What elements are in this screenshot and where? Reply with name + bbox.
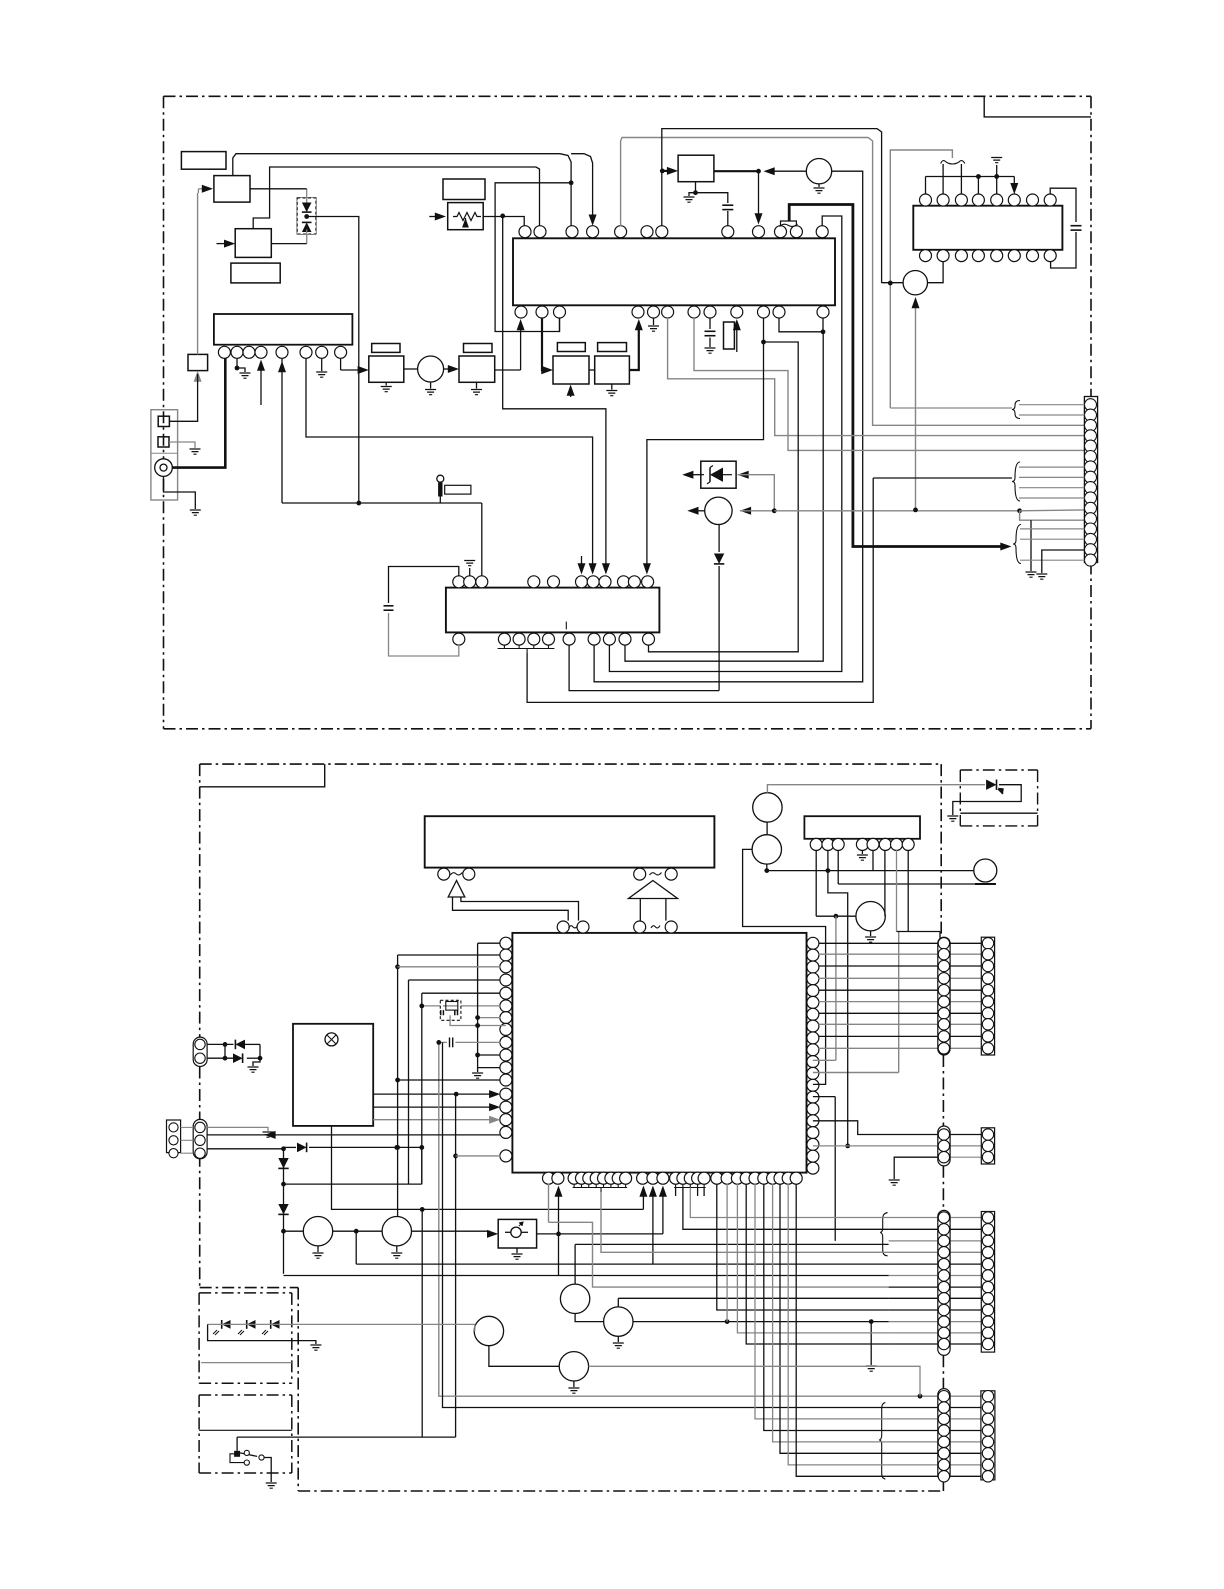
wire A3 out to D2 xyxy=(271,243,306,245)
wire netA to pin xyxy=(570,183,572,226)
wire Q14 to Q15 xyxy=(575,1314,604,1322)
block C3 label xyxy=(598,343,627,352)
wire bpin7 to CN2 p5 xyxy=(694,318,1084,451)
wire 10grp 780 to CN14 p6 xyxy=(780,1184,886,1454)
wire to Q14 top xyxy=(574,1244,576,1284)
wire jack shield ground xyxy=(164,476,196,509)
wire sensor lower xyxy=(201,1362,292,1364)
wire Q16 to Q17 xyxy=(489,1346,559,1367)
block A5 (preamp) xyxy=(214,314,353,345)
wire IC11 row2 xyxy=(398,954,501,956)
connector CN12 rows xyxy=(813,1121,989,1135)
brace p13-p16 xyxy=(1013,525,1021,564)
wire IC11 bpin arrow 662 xyxy=(662,1190,664,1234)
wire IC11 rpin 1072 gray xyxy=(813,1072,899,1074)
wire gnd stub xyxy=(870,1322,872,1365)
wire Q13 out to M1 xyxy=(412,1230,491,1232)
connector CN13 (board side) xyxy=(938,1210,950,1355)
title block bottom-left xyxy=(200,764,325,787)
wire jack signal (thick) xyxy=(172,358,225,468)
wire 10grp 763 to CN14 p4 xyxy=(764,1184,887,1431)
wire v558 net xyxy=(558,1190,560,1276)
wire lamp to IC11 bpin arrow 642 xyxy=(642,1190,644,1209)
wire CN16 p1 gnd xyxy=(207,1127,268,1131)
wire 10grp 772 to CN14 p5 xyxy=(773,1184,887,1442)
IC12 (reg) xyxy=(804,816,920,839)
wire 10grp 788 to CN14 p7 xyxy=(788,1184,886,1465)
wire arrow stub xyxy=(581,556,583,567)
dash-dot box D11 (AC adaptor) xyxy=(960,769,1037,771)
label F1 xyxy=(445,485,471,494)
wire IC11 row7 xyxy=(478,1017,501,1019)
wire IC11 row11 xyxy=(478,1067,501,1069)
wire resonator tap xyxy=(450,1015,506,1025)
wire B2 gnd node xyxy=(689,182,696,196)
block A2 xyxy=(214,176,250,203)
wire pin6 to Q11 right xyxy=(884,850,886,916)
wire B1 to D11 xyxy=(767,785,960,793)
regulator circle Q11 xyxy=(856,902,885,931)
wire 5grp p697 stub xyxy=(697,1188,699,1197)
wire row 1244 net xyxy=(575,1243,889,1245)
wire pin6 route to IC3 xyxy=(306,358,593,560)
wire pin2 branch down xyxy=(828,871,848,1146)
connector CN15 (2p) xyxy=(193,1037,207,1066)
wire block C1 out xyxy=(495,369,521,371)
lamp block LP1 xyxy=(293,1024,373,1126)
diode D12 xyxy=(207,1043,233,1045)
IC11 8-group bracket xyxy=(573,1184,575,1188)
diode chain D14 D15 xyxy=(283,1149,285,1274)
wire jack sq2 ground xyxy=(169,442,195,448)
trimmer R1 xyxy=(448,203,484,230)
photo diode PD1 xyxy=(222,1320,231,1329)
connector CN11 (cable side) xyxy=(981,937,994,1055)
wire to IC3 bpin 625 xyxy=(625,332,823,661)
transistor Q16 xyxy=(474,1316,503,1345)
wire branch to IC3 bpin xyxy=(649,342,799,652)
wire IC1 pin5 gray net to CN2 xyxy=(621,138,1085,426)
wire jack sq1 to A6 xyxy=(169,374,197,421)
wire node to pin9 xyxy=(758,171,760,216)
wire CN16 p3 xyxy=(207,1148,283,1150)
wire Q17 out to CN14 p1 xyxy=(589,1366,920,1396)
diode D16 row xyxy=(394,1145,399,1150)
wire M1 out to IC11 xyxy=(537,1233,663,1235)
wire node line y870 xyxy=(767,870,974,872)
wire junction to power switch xyxy=(421,1209,423,1437)
label R1 xyxy=(443,179,485,200)
wire R1 out to pin xyxy=(483,216,524,218)
IC11 5-group bracket xyxy=(675,1184,677,1188)
wire pin4 input xyxy=(260,363,262,405)
wire 8-group to CN13 p4 xyxy=(601,1192,889,1252)
wire A2 top to bus xyxy=(233,154,571,183)
feed p6-p9 from IC3 group xyxy=(873,477,1012,479)
servo driver Q2 xyxy=(705,497,732,524)
photo diode PD3 xyxy=(271,1320,280,1329)
wire v438 to CN14 p1 xyxy=(439,1042,920,1396)
diode D4 xyxy=(718,525,720,553)
oscillator X1 xyxy=(806,159,831,184)
wire bpin4 thick from C3 xyxy=(629,327,638,370)
wire LP1 to IC11 rows xyxy=(373,1093,497,1095)
block A1 xyxy=(181,152,226,170)
IC3 4-pin group bracket xyxy=(503,645,505,649)
wire xnet down to CN2 p1p2 xyxy=(889,154,891,408)
resistor R2 (vertical) xyxy=(724,322,735,349)
dual diode D1 D2 xyxy=(297,198,316,234)
wire bus y503 xyxy=(282,502,482,504)
small box A6 xyxy=(188,354,208,370)
transistor Q13 xyxy=(382,1217,411,1246)
wire v421 lower xyxy=(421,1147,423,1184)
connector CN11 rows xyxy=(819,942,989,944)
connector CN14 (cable side) xyxy=(981,1391,995,1480)
wire group to CN2 p6-9 xyxy=(527,478,873,702)
wire sensor out xyxy=(208,1323,475,1325)
wire 10grp 796 to CN14 p8 xyxy=(796,1184,886,1477)
wire 5grp p682 to CN13 p2 xyxy=(683,1188,889,1230)
wire 10grp 716 to CN13 p9 xyxy=(717,1184,889,1310)
wire bpin6 to CN2 p4 xyxy=(668,318,1085,436)
wire netA arm 2 xyxy=(571,154,593,216)
wire 5grp p675 stub xyxy=(675,1188,677,1197)
wire p15 ground xyxy=(1042,550,1085,573)
wire bpin1 arrow xyxy=(520,327,522,370)
resonator X11 xyxy=(440,1000,461,1020)
wire 5grp p690 to CN13 p1 xyxy=(690,1188,888,1218)
wire 10grp 755 to CN14 p3 xyxy=(755,1184,886,1419)
motor M2 xyxy=(974,859,997,882)
wire Q2 left out xyxy=(695,510,705,512)
wire bpin2 to C2 (thick) xyxy=(542,318,545,370)
block C1b label xyxy=(464,344,493,353)
wire R1 input xyxy=(429,216,438,218)
wire row 1184 xyxy=(284,1183,422,1185)
block C3 xyxy=(595,356,630,384)
wire D3 left out xyxy=(690,474,701,476)
photocoupler D3 box xyxy=(701,461,736,488)
wire D11 return xyxy=(953,785,1021,815)
transistor Q12 xyxy=(303,1217,332,1246)
wire gnd above IC3 xyxy=(469,568,471,576)
wire A2 input xyxy=(198,188,205,190)
capacitor C1 xyxy=(696,193,728,203)
wire into B2 xyxy=(662,170,670,172)
wire IC11 row12 xyxy=(398,1079,501,1081)
diode D13 xyxy=(207,1057,233,1059)
wire gnd stub CN2 xyxy=(1030,520,1032,571)
block C1b xyxy=(459,356,495,382)
transistor Q14 xyxy=(560,1284,589,1313)
power circles B1 B2 xyxy=(753,793,782,822)
wire row 1231 (mute line) xyxy=(284,1230,304,1232)
wire v442 to CN14 p2 xyxy=(443,1042,887,1407)
display block DS1 xyxy=(425,816,715,867)
wire pin7 ground xyxy=(321,358,323,371)
wire gnd net v477 xyxy=(477,943,479,1072)
connector CN14 (board side) xyxy=(938,1389,950,1481)
wire IC11 rpin 1096 to CN13 r3 xyxy=(813,1096,835,1098)
transistor Q17 xyxy=(559,1352,588,1381)
thick power bus to CN2 xyxy=(789,205,1003,547)
crystal feed brace xyxy=(941,161,965,164)
wire netA branch down-left xyxy=(495,183,571,332)
wire A2 out to D1 xyxy=(250,188,307,190)
label A4 xyxy=(231,263,280,283)
wire row 1287 net (from bpin1 gray) xyxy=(548,1184,550,1223)
wire Q2 net arrow to osc2 xyxy=(915,303,917,510)
wire IC12 pin4 gnd xyxy=(861,850,863,854)
block arrow 2 xyxy=(629,881,678,899)
power switch box xyxy=(199,1394,292,1396)
wire IC11 row5 xyxy=(422,992,501,994)
wire sensor gnd xyxy=(208,1324,316,1344)
wire clock bus xyxy=(662,129,882,283)
wire IC11 row1 xyxy=(478,942,501,944)
wire osc1 right to IC3 xyxy=(594,171,863,682)
diode D11 xyxy=(960,784,985,786)
wire switch net vertical xyxy=(455,1094,457,1437)
wire B2 left to IC11 area xyxy=(743,849,826,1084)
wire bpin11 bpin12 join xyxy=(779,318,823,332)
wire drop to IC3 top xyxy=(481,503,483,576)
block C2 xyxy=(553,356,589,384)
capacitor C3 loop IC2 xyxy=(1050,188,1076,222)
wire IC11 row4 xyxy=(409,979,501,981)
wire IC11 row10 xyxy=(478,1054,501,1056)
wire row 1264 net xyxy=(356,1263,888,1265)
wire 10grp 746 to CN13 p12 xyxy=(746,1184,888,1344)
node netA xyxy=(569,180,574,185)
wire v356 to row 1264 xyxy=(355,1231,357,1264)
motor driver M1 box xyxy=(498,1219,536,1248)
brace CN13 p1-p4 xyxy=(880,1213,887,1256)
capacitor C2 on bpin8 xyxy=(709,318,711,329)
connector CN16 (3p) xyxy=(167,1120,181,1153)
brace p1 p2 xyxy=(1012,401,1020,419)
wire Q15 out row 1321 xyxy=(633,1321,889,1323)
section border (main board, top) xyxy=(164,95,1092,97)
wire bpin5 ground xyxy=(653,318,655,325)
wire pin5 long drop xyxy=(281,405,283,503)
wire bpin3 netA xyxy=(559,318,561,332)
capacitor C11 row9 xyxy=(439,1041,447,1043)
switch S1 xyxy=(234,1451,240,1457)
wire IC11 row3 xyxy=(398,966,501,968)
remote sensor box xyxy=(199,1292,292,1294)
oscillator X2 xyxy=(903,271,927,295)
wire row 1275 net xyxy=(284,1275,889,1277)
wire pin2 ground xyxy=(237,358,245,372)
buffer Q1 xyxy=(404,368,418,370)
wire R1 long branch to IC3 xyxy=(503,216,606,560)
wire Q15 top from row 1298 xyxy=(617,1298,619,1307)
wire osc1 to node xyxy=(770,170,806,172)
wire D1D2 node to long drop xyxy=(307,217,359,504)
wire bpin10 net xyxy=(647,318,764,560)
wire 10grp 737 to CN13 p11 xyxy=(737,1184,888,1333)
block C1 xyxy=(369,356,404,382)
IC3 (DSP) xyxy=(446,588,660,633)
IC2 (tuner) xyxy=(913,206,1062,250)
wire B2 out node xyxy=(714,170,759,172)
wire osc2 right to IC2 xyxy=(928,261,944,283)
wire pin7 pin8 to CN11 xyxy=(896,850,898,932)
wire 10grp 727 to CN13 p10 xyxy=(726,1184,728,1322)
connector CN2 xyxy=(1084,397,1097,563)
photo diode PD2 xyxy=(247,1320,256,1329)
connector CN12 (cable side) xyxy=(981,1128,994,1164)
wire 5grp p704 stub xyxy=(703,1188,705,1197)
wire pin8 to B1 xyxy=(340,358,342,370)
wire IC11 row6 through resonator xyxy=(422,1005,501,1007)
crystal loop IC3 xyxy=(389,567,459,604)
wire A6 up (gray) xyxy=(197,193,199,354)
IC2 top bus xyxy=(926,176,1015,178)
thermal fuse F1 xyxy=(437,475,444,482)
wire IC11 row17 gray xyxy=(456,1155,501,1157)
wire A3 top to bus xyxy=(253,167,539,229)
title block top-right xyxy=(984,96,1091,117)
block B2 xyxy=(678,155,714,182)
wire IC11 bpin arrow 652 xyxy=(652,1190,654,1264)
wire v421 trunk xyxy=(421,993,423,1184)
wire A6 input from jack xyxy=(194,371,202,382)
wire D3 right in xyxy=(738,471,749,479)
block C2 label xyxy=(557,343,585,352)
wire 835 drop to IC11 right pin xyxy=(835,916,837,1060)
brace p6-p9 xyxy=(1012,462,1020,501)
wire CN16 p2 from IC11 xyxy=(207,1134,500,1136)
power pin pair xyxy=(780,224,798,227)
brace CN14 xyxy=(879,1403,885,1479)
IC11 (system control) xyxy=(512,933,806,1173)
wire gray net to CN2 p11 p12 xyxy=(774,510,1019,512)
connector CN13 (cable side) xyxy=(981,1212,994,1353)
wire bpin 569 net xyxy=(569,645,719,691)
wire v408 trunk xyxy=(408,980,410,1184)
connector CN12 (board side) xyxy=(938,1126,950,1166)
wire bpin9 xyxy=(736,327,738,352)
wire Q2 right in (gray) xyxy=(740,507,751,515)
section border (front board, bottom) xyxy=(200,763,942,765)
block arrow 1 (bent) xyxy=(448,881,465,898)
wire pin12 route xyxy=(609,216,841,672)
wire A3 input xyxy=(217,243,228,245)
connector CN11 (board side) xyxy=(938,937,950,1055)
wire LP1 bottom run xyxy=(332,1126,644,1210)
wire B2 bottom node xyxy=(766,864,768,871)
transistor Q15 xyxy=(604,1307,633,1336)
wire osc2 left xyxy=(882,282,904,284)
wire pin3 to M2 minus xyxy=(837,850,839,884)
connector CN1 (jack) xyxy=(151,410,178,500)
block A3 xyxy=(235,229,271,258)
block C1 row: label xyxy=(372,344,400,353)
wire v397 trunk xyxy=(397,955,399,1217)
wire crystal net xyxy=(890,150,952,158)
IC1 (main processor) xyxy=(513,238,835,305)
wire switch to gnd xyxy=(264,1458,271,1483)
wire Q11 left xyxy=(816,915,856,917)
